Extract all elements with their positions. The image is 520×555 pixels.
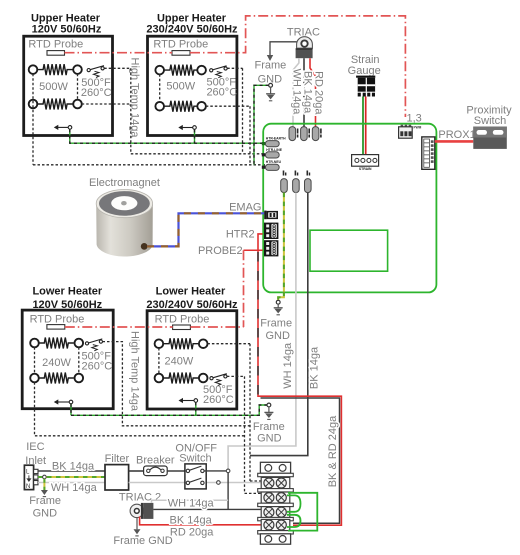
breaker CB1 bbox=[136, 455, 175, 476]
node circle WH under switch bbox=[217, 481, 221, 485]
node frame gnd circle lower right bbox=[267, 403, 271, 407]
green rectangle region on board bbox=[310, 230, 388, 271]
connector tab AC-L-out bbox=[305, 179, 312, 193]
svg-text:Lower Heater: Lower Heater bbox=[156, 286, 226, 298]
connector tab AC3 bbox=[312, 127, 319, 141]
heater U-HTR2 box Upper Heater 230/240V bbox=[146, 13, 238, 136]
connector PROX J-prox bbox=[422, 137, 435, 169]
end plate bottom bbox=[260, 534, 290, 544]
wire BK from board down bbox=[250, 193, 308, 456]
svg-text:Electromagnet: Electromagnet bbox=[89, 177, 160, 189]
wire green loop to row4 right bbox=[288, 493, 317, 531]
wire WH from TRIAC pin1 bbox=[293, 58, 299, 127]
wire RD TRIAC2 to terminal row4 bbox=[140, 517, 262, 525]
wire dashed L1 switch out to x122 riser bbox=[103, 342, 251, 426]
wire dashed box1 switch out to high-temp riser bbox=[104, 67, 131, 69]
svg-text:120V 50/60Hz: 120V 50/60Hz bbox=[32, 299, 102, 311]
connector EMAG bbox=[264, 211, 278, 220]
svg-text:GND: GND bbox=[257, 433, 282, 445]
filter FL1 bbox=[105, 453, 130, 490]
connector tab EARTH-out bbox=[281, 179, 288, 193]
svg-text:230/240V 50/60Hz: 230/240V 50/60Hz bbox=[146, 24, 238, 36]
svg-text:Frame: Frame bbox=[255, 59, 287, 71]
node terminals U-HTR1 bbox=[29, 65, 38, 74]
ground arrow frame gnd top bbox=[267, 55, 273, 61]
node circle switch out BK bbox=[226, 469, 230, 473]
svg-text:GND: GND bbox=[265, 330, 290, 342]
wire green jumper row3-row4 bbox=[287, 515, 301, 527]
electromagnet EM1 bbox=[89, 177, 160, 257]
svg-text:EMAG: EMAG bbox=[229, 202, 261, 214]
terminal row 2 bbox=[258, 492, 294, 507]
chassis ground below board bbox=[274, 304, 283, 315]
connector PROBE2 bbox=[264, 240, 278, 256]
node frame gnd circle bbox=[269, 83, 273, 87]
svg-text:BK 14ga: BK 14ga bbox=[170, 514, 213, 526]
wire dashed riser V-neu x250 upper bbox=[249, 106, 251, 165]
wire yellow-green from board EARTH tab to frame gnd bbox=[278, 193, 284, 301]
connector 1,3 PWM bbox=[399, 112, 422, 138]
connector tab AC-N-out bbox=[293, 179, 300, 193]
wire WH from board down to switch bbox=[228, 193, 296, 469]
proximity switch PS1 bbox=[466, 105, 512, 149]
connector HTR2 bbox=[264, 223, 278, 239]
wire strain green bbox=[362, 97, 364, 155]
wire RTD red dashed upper run to PROBE1 bbox=[65, 16, 406, 117]
heater L-HTR1 box Lower Heater 120V bbox=[22, 286, 113, 409]
chassis ground lower-1 bbox=[54, 399, 73, 404]
RTD probe sensor upper-2 bbox=[172, 51, 190, 56]
wire TRIAC tab to frame gnd bbox=[270, 42, 297, 55]
svg-text:RTD Probe: RTD Probe bbox=[28, 39, 83, 51]
wire HTR-LINE rail bbox=[131, 153, 266, 155]
svg-text:High Temp 14ga: High Temp 14ga bbox=[129, 331, 141, 412]
wire red solid PROBE2 stub bbox=[244, 249, 263, 251]
wire earth yellow-green inlet bbox=[38, 476, 105, 478]
wire dashed L2 switch out bbox=[227, 375, 245, 377]
terminal row 3 bbox=[258, 507, 294, 521]
terminal row 1 bbox=[258, 477, 294, 492]
wire RD from TRIAC pin3 bbox=[310, 58, 316, 127]
svg-text:Frame: Frame bbox=[253, 421, 285, 433]
svg-text:240W: 240W bbox=[165, 356, 194, 368]
wire dashed feed to terminal row2 bbox=[245, 492, 262, 494]
svg-text:Frame: Frame bbox=[260, 317, 292, 329]
svg-text:PROX1: PROX1 bbox=[438, 129, 475, 141]
svg-text:STRAIN: STRAIN bbox=[359, 167, 372, 171]
ground arrow TRIAC2 bbox=[134, 529, 141, 534]
svg-text:BK & RD 24ga: BK & RD 24ga bbox=[327, 415, 339, 487]
end plate top bbox=[260, 462, 290, 473]
svg-text:Switch: Switch bbox=[179, 452, 211, 464]
svg-text:260°C: 260°C bbox=[206, 87, 237, 99]
svg-text:IEC: IEC bbox=[26, 441, 44, 453]
wire dashed feed to terminal row1 bbox=[250, 480, 261, 482]
svg-text:120V 50/60Hz: 120V 50/60Hz bbox=[32, 24, 102, 36]
svg-text:HTR2: HTR2 bbox=[226, 229, 255, 241]
resistor R3 500W row1 bbox=[164, 65, 200, 76]
svg-text:230/240V 50/60Hz: 230/240V 50/60Hz bbox=[146, 299, 238, 311]
chassis ground symbol below frame gnd bbox=[266, 87, 275, 101]
svg-text:PROBE2: PROBE2 bbox=[198, 245, 243, 257]
wire BK filter to breaker bbox=[129, 470, 144, 472]
svg-text:RTD Probe: RTD Probe bbox=[30, 314, 85, 326]
wire green jumper row2-row3 bbox=[287, 495, 301, 511]
node terminals L-HTR2 bbox=[155, 339, 164, 348]
node terminals U-HTR2 bbox=[155, 66, 164, 75]
wire dashed box1 left column to HTR-NEU bbox=[32, 74, 34, 165]
wire earth green dashed lower rail bbox=[71, 402, 267, 415]
svg-text:BK 14ga: BK 14ga bbox=[309, 346, 321, 389]
TRIAC U2 bbox=[119, 492, 161, 519]
tiny tab labels mid bbox=[283, 171, 310, 176]
svg-text:Frame GND: Frame GND bbox=[113, 535, 172, 547]
svg-text:BK 14ga: BK 14ga bbox=[52, 460, 95, 472]
resistor R5 240W row1 bbox=[39, 338, 74, 349]
TRIAC U1 bbox=[287, 27, 320, 59]
wire strain red bbox=[365, 97, 367, 155]
chassis ground lower-2 bbox=[179, 398, 198, 403]
thermal switch S2 500F bbox=[206, 66, 237, 99]
wire dashed box2 row2 right to V-neu riser bbox=[206, 105, 250, 107]
svg-text:240W: 240W bbox=[42, 357, 71, 369]
RTD probe sensor upper-1 bbox=[47, 51, 65, 56]
svg-text:WH 14ga: WH 14ga bbox=[51, 482, 98, 494]
connector tab AC2 bbox=[301, 127, 308, 141]
wire gnd TRIAC2 drop bbox=[136, 518, 138, 530]
wire earth green dashed upper rail bbox=[70, 129, 266, 143]
chassis ground upper-1 bbox=[54, 125, 72, 130]
wire dashed riser V-A x244.5 bbox=[244, 376, 246, 493]
wire dashed box1 right column bbox=[77, 74, 79, 100]
terminal block TB1 bbox=[258, 462, 294, 476]
wire WH TRIAC2 bbox=[152, 500, 229, 503]
connector tab AC1 bbox=[289, 127, 296, 141]
wire BK from TRIAC pin2 bbox=[303, 58, 305, 127]
svg-text:500W: 500W bbox=[39, 81, 68, 93]
wire red dashed PROBE2 riser to lower RTD bbox=[243, 250, 245, 327]
wire dashed high-temp riser bbox=[130, 68, 132, 154]
svg-text:RTD Probe: RTD Probe bbox=[153, 39, 208, 51]
svg-text:Gauge: Gauge bbox=[348, 65, 381, 77]
wire BK down to TRIAC2 row bbox=[227, 473, 229, 510]
tiny tab labels top bbox=[297, 129, 322, 138]
svg-text:WH 14ga: WH 14ga bbox=[290, 69, 302, 116]
resistor R7 240W row1 bbox=[163, 338, 199, 349]
strain gauge SG1 bbox=[348, 54, 381, 96]
svg-text:HTR-LINE: HTR-LINE bbox=[266, 148, 283, 152]
svg-text:GND: GND bbox=[33, 508, 58, 520]
wire WH inlet to filter bbox=[38, 482, 105, 484]
svg-text:RD 20ga: RD 20ga bbox=[170, 526, 214, 538]
svg-text:1,3: 1,3 bbox=[407, 112, 422, 124]
svg-text:HTR-EARTH: HTR-EARTH bbox=[266, 136, 286, 140]
resistor R6 240W row2 bbox=[39, 373, 74, 384]
resistor R4 500W row2 bbox=[164, 101, 200, 112]
wire dashed riser x250 lower bbox=[249, 344, 251, 481]
svg-text:Breaker: Breaker bbox=[136, 455, 175, 467]
chassis ground upper-2 bbox=[178, 125, 196, 130]
resistor R8 240W row2 bbox=[163, 373, 199, 384]
wire WH filter to switch and terminal row1 bbox=[129, 482, 217, 484]
wire dashed box2 switch out to V-line riser bbox=[227, 67, 242, 69]
wire dashed L1 left column down bbox=[34, 347, 36, 374]
wire HTR-NEU rail bbox=[33, 164, 265, 166]
wire BK inlet to filter bbox=[38, 470, 105, 472]
wire earth drop + ground arrow IEC bbox=[43, 479, 45, 490]
wire RTD red dashed lower run bbox=[65, 326, 244, 328]
svg-text:260°C: 260°C bbox=[81, 87, 112, 99]
svg-text:Switch: Switch bbox=[474, 115, 506, 127]
node terminals L-HTR1 bbox=[30, 339, 39, 348]
svg-text:Filter: Filter bbox=[105, 453, 130, 465]
switch SW1 ON/OFF bbox=[175, 442, 217, 489]
svg-text:RD 20ga: RD 20ga bbox=[312, 71, 324, 115]
wire dashed riser V-line x242.5 bbox=[242, 68, 244, 154]
svg-text:BK 14ga: BK 14ga bbox=[301, 71, 313, 114]
node frame gnd circle below board bbox=[276, 300, 280, 304]
wire dashed box2 left column bbox=[159, 74, 161, 102]
RTD probe sensor lower-2 bbox=[173, 325, 191, 330]
heater L-HTR2 box Lower Heater 230/240V bbox=[146, 286, 238, 409]
svg-text:HTR-NEU: HTR-NEU bbox=[266, 160, 282, 164]
wire dashed L2 row1 out bbox=[207, 343, 250, 345]
wire electromagnet blue-brown to EMAG bbox=[147, 213, 264, 246]
PCB board outline bbox=[263, 124, 436, 293]
thermal switch S4 bbox=[203, 374, 234, 406]
wire BK TRIAC2 to terminal row3 bbox=[153, 508, 261, 510]
wire BK breaker to switch bbox=[167, 470, 186, 472]
svg-text:N: N bbox=[26, 484, 30, 490]
svg-text:Lower Heater: Lower Heater bbox=[32, 286, 102, 298]
svg-text:260°C: 260°C bbox=[203, 394, 234, 406]
IEC inlet J1 bbox=[24, 441, 46, 490]
wire red HTR2 feed bbox=[258, 234, 263, 372]
thermal switch S1 500F bbox=[81, 66, 112, 99]
connector STRAIN J-strain bbox=[352, 155, 379, 171]
resistor R1 500W row1 bbox=[38, 64, 73, 75]
svg-text:TRIAC 2: TRIAC 2 bbox=[119, 492, 161, 504]
heater U-HTR1 box Upper Heater 120V bbox=[24, 13, 113, 136]
svg-text:260°C: 260°C bbox=[82, 361, 113, 373]
wire BK-RD 24ga pair bbox=[258, 252, 341, 525]
chassis ground lower right bbox=[264, 407, 273, 420]
RTD probe sensor lower-1 bbox=[47, 325, 65, 330]
node earth circle bbox=[43, 475, 47, 479]
svg-text:Frame: Frame bbox=[29, 495, 61, 507]
svg-text:WH 14ga: WH 14ga bbox=[282, 342, 294, 389]
svg-text:500W: 500W bbox=[166, 81, 195, 93]
wire dashed L2 left column bbox=[158, 348, 160, 374]
wire red PROX to switch bbox=[435, 140, 474, 143]
wire dashed L1 right column bbox=[78, 347, 80, 374]
resistor R2 500W row2 bbox=[38, 99, 73, 110]
thermal switch S3 bbox=[81, 339, 112, 373]
wire earth green dashed riser to frame gnd TRIAC bbox=[254, 85, 269, 164]
terminal row 4 bbox=[258, 519, 294, 534]
wire dashed box1 row2 right bbox=[82, 103, 131, 105]
svg-text:PWM: PWM bbox=[414, 125, 422, 129]
svg-text:WH 14ga: WH 14ga bbox=[168, 497, 215, 509]
wire BK switch out to node bbox=[204, 470, 226, 472]
svg-text:RTD Probe: RTD Probe bbox=[155, 314, 210, 326]
